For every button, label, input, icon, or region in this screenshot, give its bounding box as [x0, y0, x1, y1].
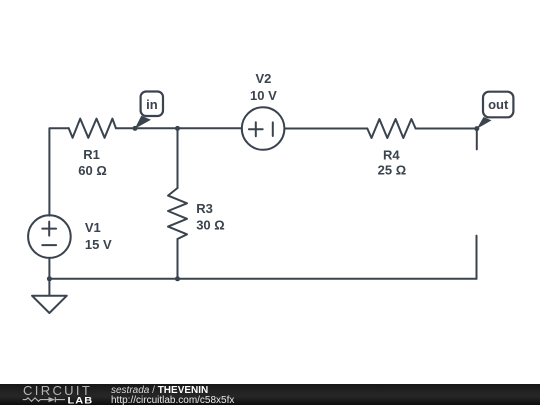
footer line 1: author / title: [111, 385, 208, 396]
svg-text:10 V: 10 V: [250, 88, 277, 103]
node A junction dot: [175, 126, 180, 131]
flag box node out: [483, 92, 513, 118]
V1 plus sign: [42, 222, 56, 236]
footer line 2: url: [111, 395, 234, 406]
wire: R3 bottom to bottom rail node: [177, 239, 179, 279]
svg-text:out: out: [488, 97, 509, 112]
resistor R4: [367, 119, 415, 138]
flag box node in: [141, 92, 163, 117]
CircuitLab logo wordmark CIRCUIT: [23, 384, 92, 397]
voltage source V1: [28, 215, 71, 258]
svg-text:R4: R4: [383, 148, 400, 163]
svg-text:in: in: [146, 97, 158, 112]
resistor R1: [69, 119, 116, 138]
wire: stub below node out: [476, 129, 478, 150]
svg-text:15 V: 15 V: [85, 237, 112, 252]
V1 minus sign: [42, 244, 56, 246]
resistor R3: [168, 188, 187, 239]
ground node junction dot: [47, 276, 52, 281]
wire: R4 right lead to node out: [416, 128, 477, 130]
svg-text:30 Ω: 30 Ω: [196, 218, 225, 233]
flag pointer for node in: [135, 116, 151, 129]
svg-text:60 Ω: 60 Ω: [78, 163, 107, 178]
wire: right vertical to bottom rail: [476, 236, 478, 279]
svg-text:V1: V1: [85, 220, 101, 235]
CircuitLab logo wordmark LAB: [68, 397, 94, 406]
svg-text:R3: R3: [196, 201, 213, 216]
svg-text:R1: R1: [83, 147, 100, 162]
R3 bottom junction dot: [175, 276, 180, 281]
wire: V1 top to top-left corner to R1 left lead: [49, 128, 68, 215]
node out junction dot: [474, 126, 479, 131]
voltage source V2: [242, 107, 285, 150]
wire: V1 bottom through ground node to ground symbol: [48, 258, 50, 296]
CircuitLab logo glyph: resistor and diode: [22, 395, 66, 405]
wire: node A down to R3 top: [177, 128, 179, 188]
node in junction dot: [133, 126, 138, 131]
flag pointer for node out: [477, 117, 492, 129]
wire: R1 right lead through node in and node A to V2 left terminal: [116, 127, 242, 129]
wire: V2 right terminal to R4 left lead: [284, 128, 367, 130]
svg-text:V2: V2: [255, 71, 271, 86]
ground: [32, 296, 67, 313]
V2 minus bar: [272, 122, 274, 136]
svg-text:25 Ω: 25 Ω: [378, 163, 407, 178]
V2 plus sign: [249, 122, 263, 136]
bottom rail wire: [49, 278, 476, 280]
